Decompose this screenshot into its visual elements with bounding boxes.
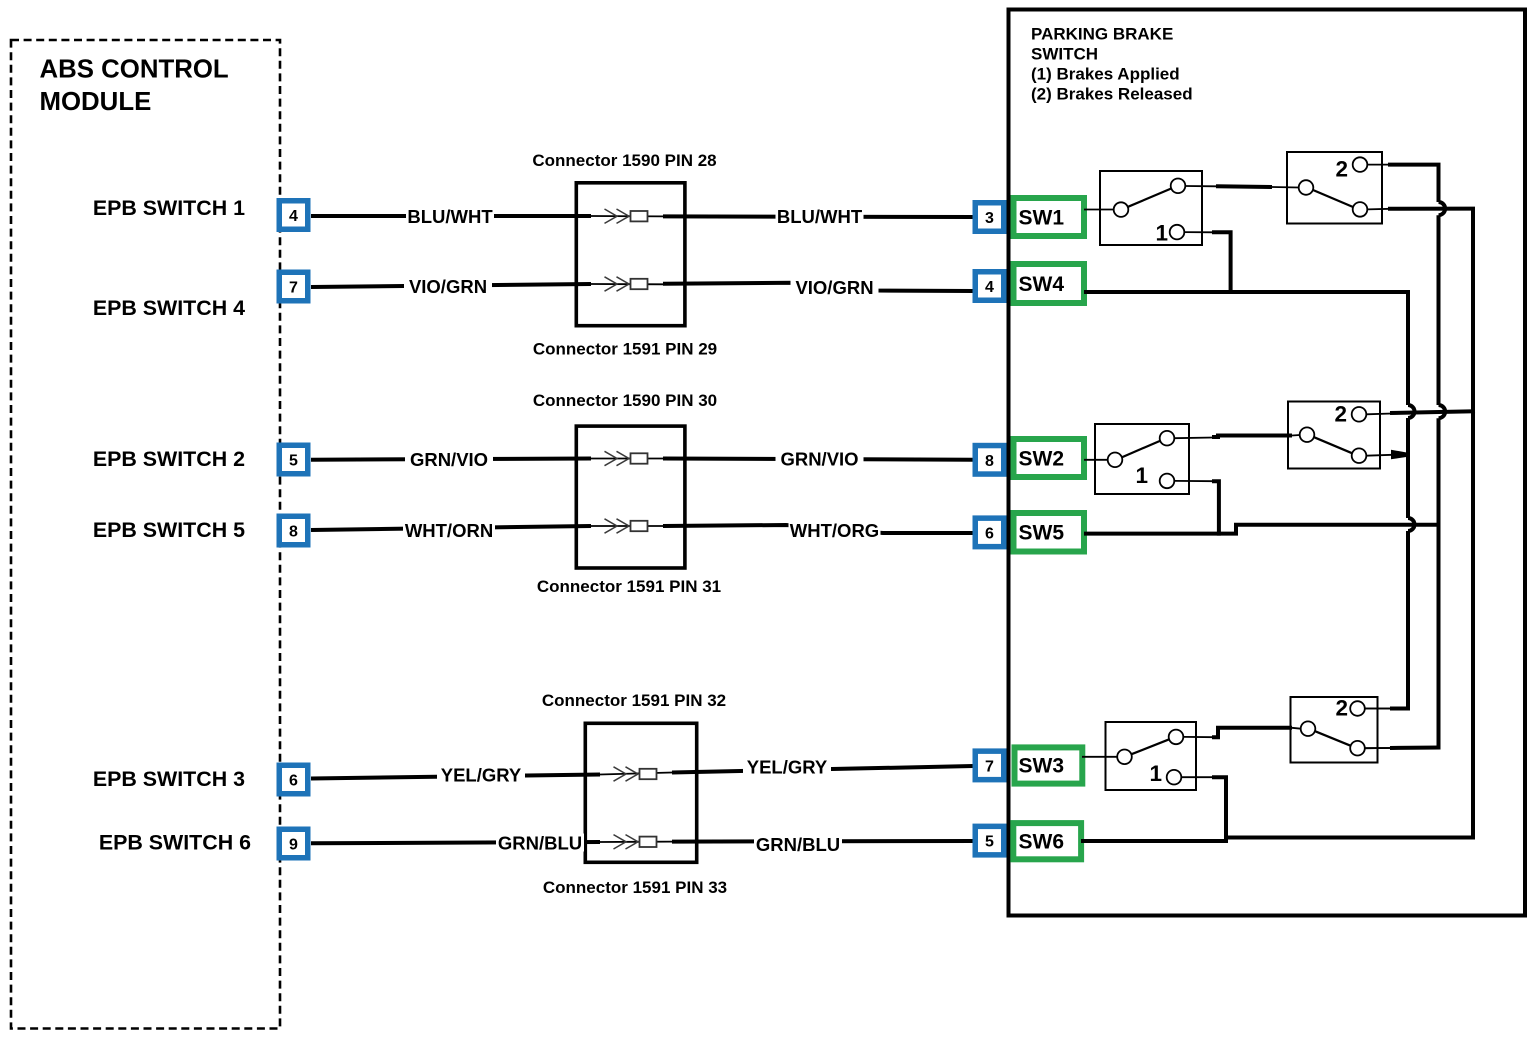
splice symbol connector 1590 pin 30: [605, 451, 648, 465]
wire YEL/GRY row 5 right segment: [672, 766, 973, 773]
svg-text:1: 1: [1149, 761, 1162, 786]
splice symbol connector 1590 pin 28: [605, 209, 648, 223]
switch group 3 left common contact: [1117, 750, 1132, 765]
wire YEL/GRY row 5 splice lead: [600, 773, 672, 775]
ABS control module dashed box: [11, 40, 280, 1029]
group 3 contact 2: [1350, 701, 1365, 716]
svg-text:EPB SWITCH 4: EPB SWITCH 4: [93, 296, 245, 320]
switch group 3 blade: [1132, 739, 1170, 754]
wire label BLU/WHT right: [776, 206, 864, 227]
wire VIO/GRN row 2 right segment: [663, 283, 973, 291]
svg-text:5: 5: [289, 453, 298, 470]
svg-text:1: 1: [1155, 221, 1168, 246]
svg-text:EPB SWITCH 5: EPB SWITCH 5: [93, 518, 245, 542]
wire GRN/VIO row 3 splice lead: [591, 458, 663, 460]
pin 8 (parking brake switch, SW2): [975, 446, 1004, 475]
wire label GRN/BLU right: [754, 834, 842, 855]
parking brake switch box: [1009, 10, 1526, 916]
SW6 box: [1013, 823, 1081, 859]
svg-text:2: 2: [1335, 696, 1348, 721]
wire label GRN/VIO right: [776, 449, 864, 470]
SW1 box: [1014, 198, 1085, 236]
wire GRN/BLU row 6 left segment: [311, 842, 600, 843]
group 3 right blade: [1315, 731, 1351, 746]
splice symbol connector 1591 pin 33: [614, 835, 657, 849]
switch group 3 left box: [1106, 722, 1197, 790]
svg-text:YEL/GRY: YEL/GRY: [747, 757, 828, 778]
wire label YEL/GRY right: [743, 757, 831, 778]
wire VIO/GRN row 2 splice lead: [591, 283, 663, 285]
wire GRN/BLU row 6 right segment: [672, 839, 973, 844]
svg-text:Connector 1591 PIN 32: Connector 1591 PIN 32: [542, 691, 726, 710]
wire bus B bottom horizontal: [1224, 836, 1475, 840]
svg-text:EPB SWITCH 2: EPB SWITCH 2: [93, 447, 245, 471]
wire group 3 upper contact to 2-box: [1183, 736, 1214, 738]
pin 9 (ABS, EPB SWITCH 6): [279, 829, 308, 858]
svg-text:Connector 1591 PIN 33: Connector 1591 PIN 33: [543, 878, 727, 897]
switch group 2 left box: [1095, 424, 1189, 494]
svg-text:8: 8: [985, 453, 994, 470]
wire group 3 contact 1 down to SW6 line: [1181, 776, 1214, 778]
svg-text:VIO/GRN: VIO/GRN: [795, 277, 873, 298]
switch group 3 right box (2): [1291, 697, 1378, 763]
wire group 1 contact 1 down to SW4 line: [1184, 231, 1214, 233]
group 2 right box lower contact: [1352, 448, 1367, 463]
bus A hop over group2-2 wire: [1439, 405, 1446, 418]
splice symbol connector 1591 pin 31: [605, 519, 648, 533]
wire SW5 line to bus A: [1084, 525, 1441, 534]
pin 7 (parking brake switch, SW3): [975, 751, 1004, 780]
svg-text:Connector 1591 PIN 31: Connector 1591 PIN 31: [537, 577, 721, 596]
wire SW3 to switch group 3: [1082, 756, 1118, 758]
wire bus A bottom to group 3 lower contact: [1390, 746, 1441, 751]
bus A hop over group1-lower wire: [1439, 202, 1446, 215]
bus C hop over SW5 wire: [1408, 518, 1415, 531]
wire group 3 contact 2 lead: [1365, 708, 1390, 710]
svg-text:EPB SWITCH 1: EPB SWITCH 1: [93, 196, 245, 220]
svg-text:5: 5: [985, 834, 994, 851]
wire label VIO/GRN right: [791, 277, 879, 298]
svg-text:VIO/GRN: VIO/GRN: [409, 276, 487, 297]
svg-text:7: 7: [289, 280, 298, 297]
SW3 box: [1015, 747, 1083, 783]
svg-text:4: 4: [985, 279, 994, 296]
wire WHT/ORN row 4 right segment: [663, 525, 973, 533]
wire group 2 lower contact to bus C (arrow): [1366, 454, 1392, 457]
group 1 right box common contact: [1299, 180, 1314, 195]
pin 3 (parking brake switch, SW1): [975, 203, 1004, 232]
pin 8 (ABS, EPB SWITCH 5): [279, 516, 308, 545]
connector box 1591 pins 32-33: [585, 723, 696, 862]
wire label GRN/VIO left: [405, 449, 493, 470]
wire YEL/GRY row 5 left segment: [311, 775, 600, 779]
pin 7 (ABS, EPB SWITCH 4): [279, 272, 308, 301]
group 1 right box lower contact: [1353, 202, 1368, 217]
pin 6 (ABS, EPB SWITCH 3): [279, 765, 308, 794]
svg-text:(1) Brakes Applied: (1) Brakes Applied: [1031, 65, 1180, 84]
wire SW2 to switch group 2: [1084, 459, 1108, 461]
bus A vertical (group 1 contact 2 net) with hops: [1437, 165, 1441, 750]
svg-text:GRN/BLU: GRN/BLU: [756, 834, 840, 855]
wire group 3 lower contact lead: [1365, 747, 1390, 749]
wire WHT/ORN row 4 splice lead: [591, 525, 663, 527]
svg-text:8: 8: [289, 524, 298, 541]
svg-text:WHT/ORN: WHT/ORN: [405, 520, 493, 541]
wire BLU/WHT row 1 left segment: [311, 214, 591, 218]
SW5 box: [1014, 513, 1085, 552]
bus C vertical (SW4 net) with hops: [1406, 290, 1410, 711]
svg-text:SW2: SW2: [1019, 448, 1065, 471]
svg-text:7: 7: [985, 758, 994, 775]
wire label WHT/ORN left: [403, 520, 495, 541]
wire group 1 lower contact to bus B: [1367, 208, 1390, 211]
svg-text:1: 1: [1135, 463, 1148, 488]
svg-text:SWITCH: SWITCH: [1031, 45, 1098, 64]
bus C hop over group2-top wire: [1408, 405, 1415, 418]
svg-text:Connector 1590 PIN 30: Connector 1590 PIN 30: [533, 391, 717, 410]
svg-text:9: 9: [289, 837, 298, 854]
group 1 contact 2: [1353, 157, 1368, 172]
wire GRN/BLU row 6 splice lead: [600, 841, 672, 843]
svg-text:BLU/WHT: BLU/WHT: [407, 206, 493, 227]
switch group 1 left common contact: [1114, 202, 1129, 217]
connector box 1590/1591 pins 28-29: [576, 183, 685, 326]
splice symbol connector 1591 pin 32: [614, 767, 657, 781]
SW2 box: [1014, 439, 1085, 477]
switch group 2 right box (2): [1288, 402, 1380, 469]
wire SW1 to switch group 1: [1084, 209, 1114, 211]
wire label VIO/GRN left: [404, 276, 492, 297]
parking brake switch title: [1031, 25, 1193, 104]
svg-text:Connector 1590 PIN 28: Connector 1590 PIN 28: [532, 151, 716, 170]
group 2 contact 2: [1352, 407, 1367, 422]
svg-text:GRN/VIO: GRN/VIO: [410, 449, 488, 470]
svg-text:6: 6: [985, 525, 994, 542]
svg-text:GRN/VIO: GRN/VIO: [780, 449, 858, 470]
switch group 1 upper contact: [1171, 179, 1186, 194]
group 3 right box lower contact: [1350, 741, 1365, 756]
wire label BLU/WHT left: [406, 206, 494, 227]
wire WHT/ORN row 4 left segment: [311, 526, 591, 530]
svg-text:3: 3: [985, 210, 994, 227]
svg-text:PARKING BRAKE: PARKING BRAKE: [1031, 25, 1173, 44]
switch group 2 upper contact: [1160, 431, 1175, 446]
svg-text:YEL/GRY: YEL/GRY: [441, 765, 522, 786]
wire SW4 line: [1084, 290, 1408, 294]
svg-text:SW4: SW4: [1019, 273, 1065, 296]
svg-text:MODULE: MODULE: [40, 88, 152, 116]
svg-text:BLU/WHT: BLU/WHT: [777, 206, 863, 227]
wire group 2 upper contact to 2-box: [1174, 437, 1214, 440]
wire label YEL/GRY left: [437, 765, 525, 786]
bus B vertical (group 1 lower / group 2 contact 2 net): [1471, 209, 1475, 840]
splice symbol connector 1591 pin 29: [605, 277, 648, 291]
wire VIO/GRN row 2 left segment: [311, 284, 591, 287]
switch group 1 lower contact: [1170, 225, 1185, 240]
group 2 right blade: [1314, 437, 1352, 453]
wire BLU/WHT row 1 right segment: [663, 214, 973, 219]
wire label GRN/BLU left: [496, 833, 584, 854]
switch group 2 lower contact: [1160, 474, 1175, 489]
svg-text:2: 2: [1335, 157, 1348, 182]
svg-text:ABS CONTROL: ABS CONTROL: [40, 56, 229, 84]
switch group 2 left common contact: [1108, 453, 1123, 468]
wire BLU/WHT row 1 splice lead: [591, 215, 663, 217]
group 1 right blade: [1313, 190, 1353, 207]
switch group 3 upper contact: [1169, 730, 1184, 745]
switch group 1 left box: [1100, 171, 1202, 245]
group 2 right box common contact: [1300, 427, 1315, 442]
svg-text:Connector 1591 PIN 29: Connector 1591 PIN 29: [533, 340, 717, 359]
pin 6 (parking brake switch, SW5): [975, 518, 1004, 547]
switch group 1 blade: [1128, 189, 1171, 207]
pin 5 (ABS, EPB SWITCH 2): [279, 445, 308, 474]
switch group 3 lower contact: [1167, 770, 1182, 785]
SW4 box: [1014, 264, 1085, 303]
svg-text:GRN/BLU: GRN/BLU: [498, 833, 582, 854]
wire SW6 line: [1081, 839, 1228, 843]
group 3 right box common contact: [1301, 721, 1316, 736]
svg-text:(2) Brakes Released: (2) Brakes Released: [1031, 85, 1193, 104]
pin 4 (ABS, EPB SWITCH 1): [279, 201, 308, 230]
svg-text:SW1: SW1: [1019, 207, 1065, 230]
wire bus C bottom to group 3 contact 2: [1390, 707, 1410, 711]
wire group 2 contact 2 to bus B: [1366, 413, 1392, 416]
wire GRN/VIO row 3 left segment: [311, 459, 591, 460]
svg-text:2: 2: [1334, 402, 1347, 427]
svg-text:EPB SWITCH 3: EPB SWITCH 3: [93, 767, 245, 791]
pin 4 (parking brake switch, SW4): [975, 272, 1004, 301]
svg-text:WHT/ORG: WHT/ORG: [790, 520, 879, 541]
wire group 1 contact 2 to bus A: [1367, 164, 1390, 166]
wire GRN/VIO row 3 right segment: [663, 459, 973, 460]
svg-text:SW6: SW6: [1019, 831, 1065, 854]
connector box 1590/1591 pins 30-31: [576, 426, 685, 568]
svg-text:SW5: SW5: [1019, 522, 1065, 545]
pin 5 (parking brake switch, SW6): [975, 826, 1004, 855]
svg-text:4: 4: [289, 208, 298, 225]
wire label WHT/ORG right: [789, 520, 881, 541]
switch group 1 right box (2): [1287, 152, 1382, 224]
wire group 2 contact 1 down to SW5 line: [1174, 480, 1214, 482]
svg-text:SW3: SW3: [1019, 755, 1065, 778]
wire group 1 upper contact to 2-box: [1185, 185, 1216, 187]
svg-text:EPB SWITCH 6: EPB SWITCH 6: [99, 831, 251, 855]
switch group 2 blade: [1122, 441, 1160, 458]
svg-text:6: 6: [289, 773, 298, 790]
